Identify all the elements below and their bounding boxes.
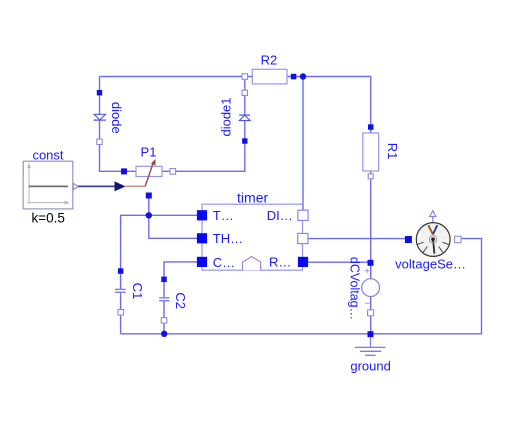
const block (23, 148, 78, 226)
svg-text:diode1: diode1 (218, 97, 233, 136)
node junction at R2 right (300, 73, 306, 79)
dcVoltage source (348, 257, 380, 320)
svg-text:R…: R… (269, 254, 291, 269)
svg-text:k=0.5: k=0.5 (31, 210, 64, 225)
node junction at TRIG wire (146, 212, 152, 218)
wire timer C pin to C2 (164, 262, 202, 298)
signal wire const to P1 input (78, 185, 115, 187)
wire R2 right to R1 top (287, 77, 371, 128)
resistor R2 (242, 52, 296, 84)
pin TRIG (timer) (197, 208, 234, 223)
pin RESET (timer) (269, 254, 308, 269)
wire junction left to C1 (121, 215, 149, 289)
node junction at C2 bottom rail (161, 331, 167, 337)
wire junction drop to DIS pin (302, 77, 304, 216)
pin THRESH (timer) (197, 231, 243, 246)
wire R1 bottom through dcVoltage to bottom rail (370, 171, 372, 334)
svg-text:TH…: TH… (213, 231, 243, 246)
timer block (202, 189, 303, 270)
svg-text:DI…: DI… (267, 208, 293, 223)
wire diode branch down-left to P1 (100, 77, 137, 172)
pentagon symbol in timer (243, 257, 261, 271)
pin DIS (timer) (267, 208, 308, 223)
svg-text:R1: R1 (385, 143, 400, 160)
svg-text:const: const (32, 148, 63, 163)
svg-text:T…: T… (213, 208, 234, 223)
wire wiper to junction to THRESH (149, 196, 202, 239)
pin OUT (timer) (298, 233, 308, 243)
svg-text:+: + (364, 267, 370, 278)
capacitor C1 (115, 268, 145, 315)
diode (left, pointing down) (94, 90, 124, 145)
svg-text:timer: timer (237, 189, 268, 205)
wire diode1 branch down to P1 right (162, 77, 245, 172)
svg-text:C1: C1 (130, 283, 145, 300)
ground (350, 331, 390, 373)
wire C2 bottom to bottom rail (163, 301, 165, 334)
wire RESET to dcVoltage (303, 261, 371, 263)
voltage sensor (395, 211, 466, 272)
svg-text:voltageSe…: voltageSe… (395, 256, 466, 271)
wire bottom rail to sensor right (121, 239, 482, 334)
capacitor C2 (159, 277, 188, 324)
svg-text:diode: diode (109, 102, 124, 134)
svg-text:P1: P1 (141, 145, 157, 160)
wire R1 top pin stub (370, 127, 372, 133)
svg-text:−: − (365, 298, 371, 309)
svg-text:C2: C2 (173, 292, 188, 309)
wire C1 bottom to bottom rail (120, 293, 122, 334)
wire OUT to voltage sensor (303, 238, 408, 240)
wire junction to TRIG (149, 214, 202, 216)
svg-text:dCVoltag…: dCVoltag… (348, 257, 362, 320)
resistor R1 (363, 124, 400, 179)
wire top rail left (supply to R2) (100, 76, 253, 78)
pin CONTROL (timer) (197, 255, 235, 270)
signal input arrow (115, 181, 126, 191)
svg-text:ground: ground (350, 358, 390, 373)
svg-text:R2: R2 (261, 52, 278, 67)
potentiometer P1 (121, 145, 176, 199)
svg-text:C…: C… (213, 255, 235, 270)
diode1 (right, pointing up) (218, 90, 250, 144)
